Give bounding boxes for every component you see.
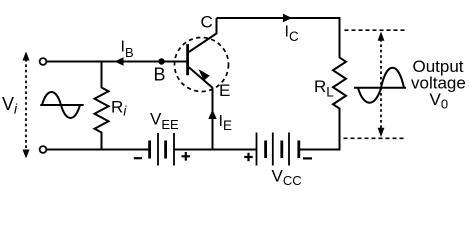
input sine wave — [40, 92, 83, 118]
output dashed double arrow — [378, 32, 385, 138]
Vi dashed arrow — [23, 52, 30, 159]
output dashed line top — [345, 29, 407, 31]
IE arrow — [208, 110, 216, 120]
VEE minus sign — [134, 157, 142, 159]
resistor Ri — [95, 62, 109, 150]
wire emitter vertical — [212, 88, 214, 150]
transistor Q1 collector lead — [189, 18, 217, 52]
wire bottom middle — [174, 149, 257, 151]
node B junction dot — [158, 58, 164, 64]
input terminal bottom — [40, 146, 47, 153]
VCC minus sign — [303, 157, 312, 159]
wire base (top-left horizontal) — [47, 61, 187, 63]
wire collector (top horizontal) — [217, 17, 341, 19]
transistor Q1 base bar — [186, 44, 189, 75]
wire right branch with resistor RL — [333, 18, 346, 150]
wire bottom left — [47, 149, 149, 151]
VEE plus sign — [182, 152, 191, 161]
battery VCC — [257, 133, 299, 166]
input terminal top — [40, 58, 47, 65]
IB arrow — [115, 57, 124, 65]
IC arrow — [283, 14, 292, 22]
svg-text:C: C — [201, 12, 213, 31]
VCC plus sign — [244, 153, 252, 161]
svg-text:E: E — [219, 81, 230, 100]
transistor Q1 emitter arrow (PNP) — [199, 69, 210, 81]
transistor Q1 dashed envelope — [175, 38, 229, 92]
wire bottom right — [299, 149, 341, 151]
output dashed line bottom — [344, 137, 407, 139]
transistor Q1 emitter lead — [189, 67, 213, 88]
output sine wave — [354, 68, 406, 103]
svg-text:B: B — [154, 65, 166, 85]
battery VEE — [150, 133, 174, 166]
